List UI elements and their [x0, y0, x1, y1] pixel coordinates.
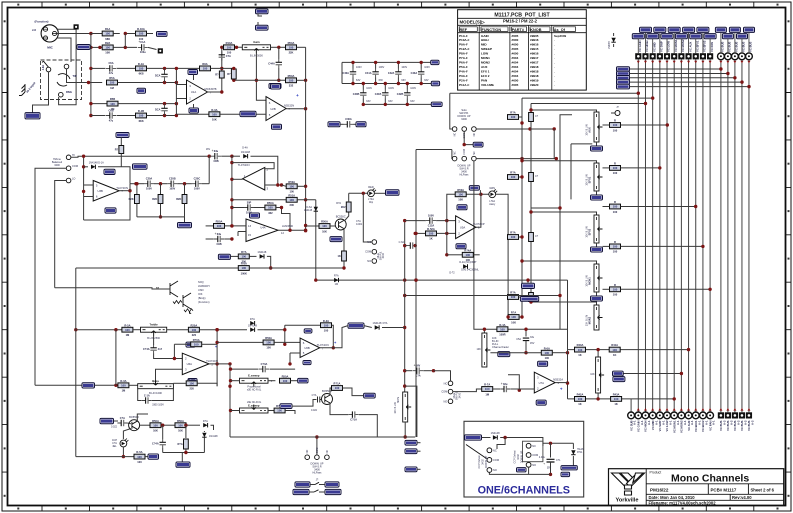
svg-text:D-?2: D-?2	[449, 272, 455, 275]
svg-text:PM16/22: PM16/22	[650, 488, 669, 493]
wire fader top	[484, 329, 567, 349]
svg-text:U2B: U2B	[270, 107, 276, 111]
capacitor C-M2	[384, 90, 386, 99]
svg-text:R-5A: R-5A	[124, 323, 130, 327]
svg-text:63V: 63V	[388, 100, 393, 103]
svg-text:100: 100	[268, 206, 273, 210]
led D-8A	[368, 190, 375, 197]
wire led out	[375, 192, 386, 194]
svg-text:63V: 63V	[379, 79, 384, 82]
resistor R-29A	[319, 224, 330, 229]
svg-text:100: 100	[289, 198, 294, 202]
potentiometer P-MON1	[594, 264, 599, 292]
resistor R-10A	[219, 71, 224, 78]
svg-text:B.LIN 100K: B.LIN 100K	[149, 391, 162, 395]
svg-text:Treble: Treble	[149, 323, 158, 327]
svg-text:VC BUS: VC BUS	[726, 420, 730, 431]
wire mon wire1	[623, 373, 681, 375]
svg-text:47u: 47u	[109, 118, 114, 122]
svg-text:100: 100	[545, 351, 550, 355]
svg-text:RNG: RNG	[66, 90, 72, 94]
svg-text:63V: 63V	[356, 79, 361, 82]
wire cap out	[202, 183, 209, 185]
svg-text:x3E NC-R.6L: x3E NC-R.6L	[247, 401, 262, 404]
capacitor C-M3	[406, 90, 408, 99]
svg-text:+: +	[212, 149, 214, 153]
resistor R-55A	[268, 410, 274, 412]
wire Q3 out	[137, 414, 148, 422]
svg-text:10K: 10K	[590, 373, 595, 376]
svg-text:100: 100	[289, 185, 294, 189]
svg-text:TL074CN: TL074CN	[317, 343, 329, 347]
svg-text:C41A: C41A	[365, 71, 372, 75]
svg-text:220: 220	[189, 387, 194, 391]
svg-text:#9920: #9920	[530, 83, 539, 87]
svg-text:A-1: A-1	[640, 420, 644, 425]
svg-text:C-1A: C-1A	[144, 393, 150, 397]
svg-text:10K: 10K	[511, 320, 516, 324]
node pot EFX1 bottom	[596, 191, 598, 195]
svg-text:R?: R?	[215, 73, 219, 77]
svg-text:#604: #604	[512, 69, 519, 73]
wire pot EFX1 feed	[522, 161, 597, 163]
svg-text:COM: COM	[441, 390, 447, 394]
svg-text:P11A-F: P11A-F	[459, 83, 469, 87]
op-amp U2A	[243, 167, 265, 190]
node ladder chip2	[431, 81, 439, 85]
svg-text:#604: #604	[512, 61, 519, 65]
svg-text:100: 100	[212, 112, 217, 116]
svg-text:(Body): (Body)	[198, 296, 206, 300]
svg-text:100: 100	[283, 379, 288, 383]
resistor R-43A	[611, 397, 622, 402]
svg-text:C6A: C6A	[108, 61, 113, 65]
potentiometer P9A mid	[240, 378, 269, 383]
svg-text:100V: 100V	[424, 66, 430, 69]
svg-text:10K B.LIN: 10K B.LIN	[585, 226, 588, 237]
wire U3B out	[119, 190, 130, 192]
wire rows link	[124, 34, 126, 48]
svg-text:R1A: R1A	[105, 27, 110, 31]
node pin chip	[137, 88, 146, 93]
svg-text:30P: 30P	[247, 200, 252, 204]
svg-text:R?A: R?A	[511, 311, 517, 315]
svg-text:1M: 1M	[335, 283, 338, 286]
svg-text:R?: R?	[227, 72, 231, 76]
node ladder chip1	[431, 60, 439, 64]
svg-text:100: 100	[203, 67, 208, 71]
svg-text:3400: 3400	[461, 117, 467, 121]
svg-text:100: 100	[613, 288, 618, 292]
node fader chip	[498, 352, 510, 357]
resistor R-36A	[188, 327, 199, 332]
op-amp U2B	[266, 97, 286, 121]
svg-text:D?11: D?11	[577, 452, 583, 454]
svg-text:100: 100	[289, 79, 294, 83]
svg-text:DVE 04C306ML: DVE 04C306ML	[461, 269, 479, 272]
resistor R-AUX	[610, 123, 621, 128]
wire gain wiper	[256, 50, 266, 100]
svg-text:100: 100	[545, 356, 550, 360]
svg-text:NC: NC	[473, 151, 476, 155]
svg-text:P3A-F: P3A-F	[459, 74, 468, 78]
op-amp U4A OTA	[246, 219, 278, 242]
svg-text:NO: NO	[367, 259, 371, 263]
svg-text:R40A: R40A	[577, 343, 584, 347]
wire U2A out	[232, 178, 243, 180]
svg-text:R-1A: R-1A	[138, 62, 144, 66]
wire 446 vert	[446, 221, 448, 255]
svg-text:MID: MID	[481, 43, 487, 47]
wire xlr pin1	[57, 28, 77, 30]
svg-text:Filename: m117V4.00sch.sch2002: Filename: m117V4.00sch.sch2002	[649, 501, 717, 506]
svg-text:47u: 47u	[109, 71, 114, 75]
svg-text:R2K: R2K	[152, 197, 157, 201]
svg-text:63V: 63V	[366, 100, 371, 103]
wire led down	[122, 447, 124, 457]
svg-text:NCQ: NCQ	[198, 280, 204, 284]
svg-text:10K: 10K	[477, 348, 482, 351]
wire clip base	[306, 225, 319, 227]
svg-text:63V: 63V	[410, 100, 415, 103]
svg-text:R: R	[614, 200, 616, 204]
diode D-9A omit	[463, 264, 467, 268]
svg-text:#9915: #9915	[530, 47, 539, 51]
svg-text:C?1: C?1	[556, 459, 561, 462]
capacitor C-M1	[362, 90, 364, 99]
capacitor C-send3	[529, 233, 534, 242]
wire U5A in3 row	[405, 220, 426, 222]
wire cap link2	[177, 183, 192, 185]
op-amp U5A	[456, 216, 476, 239]
switch SW-7A ccp2	[523, 441, 543, 462]
resistor R-40A	[575, 347, 586, 352]
svg-text:100: 100	[466, 253, 471, 257]
svg-text:3400: 3400	[382, 252, 385, 258]
svg-text:100: 100	[335, 386, 340, 390]
svg-text:R50A: R50A	[288, 180, 295, 184]
svg-text:PART#: PART#	[512, 28, 525, 32]
svg-text:2K2: 2K2	[341, 205, 346, 209]
resistor R-24A	[282, 185, 287, 186]
svg-text:NC: NC	[454, 133, 457, 137]
wire treble fb right	[217, 329, 247, 331]
resistor R-EFX2	[610, 204, 621, 209]
wire xlr pin2	[57, 33, 91, 35]
connector J-6A jack	[41, 60, 82, 100]
diode D-2A	[232, 155, 240, 157]
svg-text:R-7A: R-7A	[484, 383, 490, 387]
svg-text:A-1: A-1	[683, 420, 687, 425]
svg-text:COM: COM	[316, 448, 319, 454]
svg-text:TIP: TIP	[73, 74, 77, 78]
switch SW-1A solo	[450, 93, 453, 129]
svg-text:100: 100	[178, 423, 183, 427]
svg-text:SWEEP: SWEEP	[481, 47, 492, 51]
svg-text:0.022: 0.022	[311, 409, 318, 412]
svg-text:100: 100	[153, 423, 158, 427]
wire gain rail	[222, 46, 243, 48]
svg-text:VC BUS: VC BUS	[719, 420, 723, 431]
svg-text:1N4148: 1N4148	[209, 435, 218, 438]
svg-text:FUNCTION: FUNCTION	[482, 28, 502, 32]
svg-text:A-1: A-1	[669, 420, 673, 425]
svg-text:100: 100	[105, 46, 110, 50]
potentiometer P-AUX	[594, 112, 599, 142]
svg-text:MIC: MIC	[47, 46, 53, 50]
svg-text:NO: NO	[532, 463, 536, 467]
bus top label chips	[632, 34, 644, 39]
svg-text:C20C: C20C	[194, 177, 201, 181]
svg-text:AUX: AUX	[481, 65, 487, 69]
svg-text:EFX 1: EFX 1	[481, 69, 490, 73]
svg-text:D-4A: D-4A	[242, 147, 248, 150]
svg-text:COM: COM	[493, 458, 499, 462]
jumper J-1A	[295, 482, 310, 487]
svg-text:10K: 10K	[105, 51, 110, 55]
wire U3B fb low	[84, 191, 130, 220]
resistor R-send1	[508, 115, 519, 120]
svg-text:100: 100	[429, 232, 434, 236]
transistor Q-3A	[129, 420, 140, 431]
pin box 2	[74, 24, 79, 29]
svg-text:C?A: C?A	[312, 394, 317, 397]
svg-text:63V: 63V	[424, 79, 429, 82]
svg-text:Rev:v4.00: Rev:v4.00	[732, 495, 752, 500]
svg-text:VC MON1: VC MON1	[672, 420, 676, 433]
svg-text:R?A: R?A	[510, 111, 516, 115]
pin box 3	[158, 48, 163, 53]
svg-text:100: 100	[137, 455, 142, 459]
svg-text:100V: 100V	[146, 187, 152, 191]
svg-text:100R: 100R	[499, 333, 505, 337]
diode D-7A	[260, 254, 264, 258]
resistor R-send3	[508, 235, 519, 240]
svg-text:1K: 1K	[614, 402, 617, 406]
svg-text:P1A-F: P1A-F	[459, 34, 468, 38]
wire U2B out	[286, 108, 306, 110]
svg-text:U6A: U6A	[187, 362, 193, 366]
svg-text:#9916: #9916	[530, 52, 539, 56]
node led chip	[386, 190, 400, 196]
svg-text:VC GAIN: VC GAIN	[637, 420, 641, 431]
svg-text:REF: REF	[460, 28, 468, 32]
resistor R-53A	[508, 315, 519, 320]
wire mon bus	[405, 295, 560, 297]
svg-text:6K8: 6K8	[139, 119, 144, 123]
svg-text:VC HIGH: VC HIGH	[644, 420, 648, 431]
svg-text:#600: #600	[512, 78, 519, 82]
node ladder chip3	[431, 102, 442, 106]
resistor R-MON1	[610, 244, 621, 249]
svg-text:Gain: Gain	[253, 40, 260, 44]
wire U7A out	[555, 382, 567, 384]
svg-text:A-1: A-1	[633, 420, 637, 425]
op-amp U7A	[534, 372, 555, 393]
wire pot MON1 feed	[522, 261, 597, 264]
wire U3B in1	[83, 156, 85, 220]
node MTRGND5	[520, 297, 538, 302]
bus connector pads	[635, 53, 641, 59]
wire jack sleeve	[33, 72, 49, 113]
svg-text:VC BUS: VC BUS	[740, 420, 744, 431]
svg-text:100: 100	[217, 224, 222, 228]
svg-text:1K: 1K	[429, 237, 432, 241]
resistor R-41A	[609, 347, 620, 352]
wire U5A in2 row	[415, 232, 426, 234]
svg-text:100: 100	[613, 123, 618, 127]
wire U6B in5	[290, 352, 300, 354]
svg-text:A-1: A-1	[697, 420, 701, 425]
switch SW-6A ccp1	[466, 445, 487, 459]
svg-text:100: 100	[485, 387, 490, 391]
capacitor C-19A	[330, 404, 348, 415]
node chip one6a	[561, 466, 577, 470]
svg-text:J-6A: J-6A	[42, 65, 45, 71]
svg-text:100: 100	[613, 245, 618, 249]
svg-text:(Function): (Function)	[198, 300, 210, 304]
Yorkville logo	[612, 473, 645, 495]
svg-text:D?A: D?A	[250, 317, 255, 321]
svg-text:10K B.LIN: 10K B.LIN	[585, 275, 588, 286]
svg-text:100V: 100V	[169, 187, 175, 191]
resistor R-32A	[455, 192, 466, 197]
svg-text:NC: NC	[444, 381, 448, 385]
svg-text:A-1: A-1	[690, 420, 694, 425]
node VCC chip	[157, 32, 168, 37]
svg-text:+: +	[414, 364, 416, 368]
capacitor C-8A	[211, 155, 221, 157]
svg-text:N5532N: N5532N	[284, 104, 294, 108]
svg-text:100: 100	[458, 193, 463, 197]
wire rail to U2A	[226, 155, 232, 157]
wire hlpass out	[476, 158, 556, 160]
svg-text:C12A: C12A	[428, 223, 435, 227]
node VR chips top	[256, 9, 269, 14]
wire ccp2 rail	[543, 442, 574, 444]
resistor R-7A	[482, 387, 493, 392]
wire cap ladder rails	[342, 61, 431, 63]
op-amp U6A	[182, 353, 209, 374]
svg-text:COM: COM	[72, 164, 78, 168]
svg-text:C41B: C41B	[375, 92, 382, 96]
svg-text:A-1: A-1	[676, 420, 680, 425]
resistor R-50B	[330, 388, 332, 395]
svg-text:100: 100	[322, 224, 327, 228]
potentiometer P11A fader	[482, 333, 487, 367]
svg-text:R: R	[614, 162, 616, 166]
svg-text:A-1: A-1	[654, 420, 658, 425]
svg-text:100: 100	[511, 315, 516, 319]
svg-text:100: 100	[139, 114, 144, 118]
capacitor C-DCA1	[164, 71, 166, 80]
wire 404 vert	[404, 221, 406, 392]
capacitor C-DCA2	[164, 105, 166, 114]
svg-text:100V: 100V	[379, 66, 385, 69]
svg-text:100: 100	[189, 382, 194, 386]
svg-text:R50A: R50A	[152, 419, 159, 423]
wire U1A out	[208, 47, 222, 92]
resistor R-send4	[508, 295, 519, 300]
svg-text:332: 332	[289, 84, 294, 88]
resistor R-42A	[575, 397, 586, 402]
svg-text:100: 100	[192, 328, 197, 332]
svg-text:#605: #605	[512, 83, 519, 87]
svg-text:P12A-F: P12A-F	[459, 47, 470, 51]
svg-text:VC SUB: VC SUB	[629, 420, 633, 430]
svg-text:PM16-2 / PM 22-2: PM16-2 / PM 22-2	[503, 18, 538, 23]
svg-text:R50A: R50A	[457, 188, 464, 192]
svg-text:A-1: A-1	[705, 420, 709, 425]
svg-text:P9A-F: P9A-F	[459, 43, 468, 47]
wire 569 vert2	[567, 350, 569, 399]
capacitor C-3A	[91, 115, 106, 117]
svg-text:100: 100	[324, 323, 329, 327]
svg-text:1N4148: 1N4148	[89, 160, 99, 164]
svg-text:#9916: #9916	[530, 43, 539, 47]
led D-18A solo	[466, 193, 489, 195]
svg-text:R50A: R50A	[321, 220, 328, 224]
wire clip bus	[316, 279, 568, 281]
wire Q2 in	[55, 288, 170, 289]
capacitor C-13A	[405, 245, 407, 247]
wire 284 vert	[284, 325, 286, 344]
svg-text:100: 100	[612, 348, 617, 352]
svg-text:100: 100	[613, 171, 618, 175]
svg-text:100: 100	[227, 51, 232, 55]
svg-text:#605: #605	[512, 34, 519, 38]
wire gain right	[271, 46, 286, 48]
op-amp U3B	[93, 181, 119, 202]
node MTRGND3	[348, 323, 364, 328]
node chip one6c	[517, 468, 527, 472]
wire solo out	[476, 128, 554, 130]
wire U2B in5	[176, 113, 209, 115]
resistor R-25A	[232, 199, 286, 201]
svg-text:R?: R?	[115, 148, 119, 152]
svg-text:C?1A: C?1A	[350, 417, 357, 421]
wire filter gnd	[137, 216, 185, 218]
svg-text:NC: NC	[493, 448, 497, 452]
wire pot MON1 to bus	[603, 245, 610, 247]
potentiometer P-MON2	[594, 305, 599, 330]
svg-text:10K B.LIN: 10K B.LIN	[585, 174, 588, 185]
svg-text:P4A-F: P4A-F	[459, 69, 468, 73]
wire line com	[35, 168, 66, 385]
svg-text:U6B: U6B	[304, 346, 310, 350]
wire cap link1	[154, 183, 167, 185]
svg-text:#9916: #9916	[530, 38, 539, 42]
svg-text:100: 100	[511, 175, 516, 179]
svg-text:100V: 100V	[366, 87, 372, 90]
svg-text:LM394CH: LM394CH	[198, 284, 210, 288]
resistor R-46A	[140, 424, 150, 426]
svg-text:100: 100	[289, 190, 294, 194]
svg-text:100: 100	[105, 32, 110, 36]
svg-text:100: 100	[511, 115, 516, 119]
svg-text:33u: 33u	[214, 149, 219, 153]
svg-text:NO: NO	[443, 399, 447, 403]
resistor R-6A	[541, 350, 552, 355]
svg-text:HLPass: HLPass	[313, 471, 323, 475]
resistor R-44A	[263, 340, 274, 345]
svg-text:33u: 33u	[530, 336, 535, 339]
svg-text:100V: 100V	[356, 66, 362, 69]
potentiometer P10A treble	[141, 327, 167, 332]
svg-text:R-3A: R-3A	[120, 379, 126, 383]
svg-text:100K: 100K	[241, 271, 247, 275]
wire treble wiper	[153, 332, 155, 345]
